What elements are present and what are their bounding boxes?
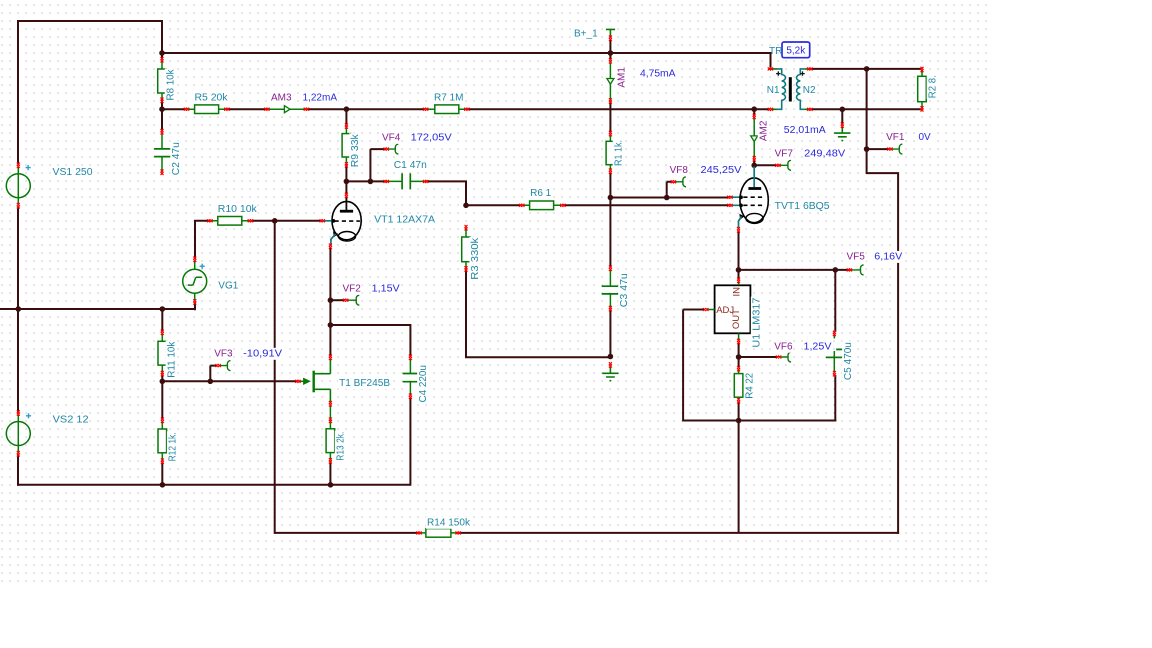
transformer primary winding N1 [772, 69, 786, 109]
wire R5 to AM3 [227, 108, 266, 110]
wire R10 right to VT1 grid [251, 220, 322, 222]
transformer secondary winding N2 [797, 69, 811, 109]
wire R5 left lead-in [162, 108, 186, 110]
B+_1 tie symbol [606, 29, 615, 37]
wire R8 bottom to C2 top through node [161, 101, 163, 132]
wire B+ junction to AM1 [609, 53, 611, 60]
node junction dot AM2 branch [751, 106, 757, 112]
resistor R1 [606, 135, 615, 172]
svg-text:U1 LM317: U1 LM317 [752, 297, 763, 347]
label N2 [802, 84, 817, 96]
probe VF7 [780, 160, 792, 170]
value 1,22mA [302, 92, 339, 104]
wire top-left horizontal [17, 20, 163, 22]
resistor R4 [734, 370, 743, 401]
label VT1 12AX7A [373, 214, 436, 226]
label R10 10k [217, 203, 258, 215]
svg-text:R8 10k: R8 10k [166, 69, 177, 101]
node junction dot VF3 tap [208, 379, 214, 385]
svg-text:VF2: VF2 [343, 284, 362, 295]
node junction dot VF7/TVT1 plate [751, 163, 757, 169]
wire R10 left corner to VG1 [194, 220, 210, 259]
wire AM2 lead-in from plate rail [753, 109, 755, 116]
value 1,15V [371, 283, 401, 295]
probe VF3 [220, 361, 231, 371]
wire cathode rail to VF5 [739, 269, 849, 271]
svg-text:R11 10k: R11 10k [166, 341, 177, 378]
value 249,48V [803, 148, 846, 160]
label VF4 [381, 132, 401, 144]
label R5 20k [194, 92, 229, 104]
label R4 22 [744, 372, 756, 400]
node A junction dot [15, 306, 21, 312]
svg-text:245,25V: 245,25V [701, 165, 742, 176]
svg-text:R1 1k.: R1 1k. [614, 140, 625, 166]
wire VF8 riser [667, 182, 673, 198]
wire C5 lead-in [834, 270, 836, 332]
wire LM317 OUT to VF6 node [738, 343, 740, 358]
node junction dot R4 bottom rail [736, 418, 742, 424]
wire R9 top lead-in [345, 109, 347, 125]
svg-text:AM3: AM3 [271, 92, 292, 103]
wire C5 bottom to loop rail [834, 375, 836, 422]
svg-text:1,15V: 1,15V [372, 284, 400, 295]
wire regulator branch down to bottom rail [738, 421, 740, 533]
wire R11 bottom to gate node [161, 374, 163, 383]
label VF3 [213, 348, 233, 360]
probe VF8 [675, 177, 686, 187]
wire R11 lead-in [161, 309, 163, 332]
svg-text:IN: IN [731, 287, 742, 297]
wire VS1 to node A junction [17, 207, 19, 310]
node junction dot C5 branch [833, 267, 839, 273]
svg-text:VG1: VG1 [218, 280, 238, 291]
svg-text:VF3: VF3 [214, 349, 233, 360]
label C5 470u [842, 341, 854, 381]
node junction dot R8/R5 [159, 106, 165, 112]
node junction dot VG1 return [160, 306, 166, 312]
label AM3 [270, 92, 293, 104]
value 4,75mA [639, 68, 677, 80]
probe VF6 [780, 352, 791, 362]
wire long bias vertical x=275 [274, 221, 276, 534]
value 1,25V [803, 341, 833, 353]
node junction dot VF1 [864, 146, 870, 152]
wire C1 node horizontal [346, 180, 385, 182]
label R12 1k [167, 431, 179, 462]
label VF6 [773, 341, 793, 353]
wire VF1 tap [867, 148, 889, 150]
wire top rail y=53 [162, 52, 771, 54]
label R3 330k [469, 237, 481, 281]
label R7 1M [433, 92, 464, 104]
wire C4 riser from bottom rail [409, 397, 411, 486]
svg-text:R14 150k: R14 150k [427, 518, 471, 529]
svg-text:5,2k: 5,2k [786, 45, 806, 56]
node junction dot grid bias rail top [272, 218, 278, 224]
node junction dot secondary ground tap [840, 107, 846, 113]
wire left stub and horizontal to VG1 return [0, 308, 162, 310]
wire R12 lead-in [161, 381, 163, 419]
resistor R12 [158, 421, 167, 461]
node junction dot VF4 tap [368, 179, 374, 185]
svg-text:VF5: VF5 [847, 252, 866, 263]
label C4 220u [417, 364, 429, 404]
svg-text:C1 47n: C1 47n [394, 160, 427, 171]
svg-text:249,48V: 249,48V [804, 149, 845, 160]
wire grid1 rail to TVT1 [610, 197, 729, 199]
label R8 10k [165, 69, 177, 102]
svg-text:VS1 250: VS1 250 [53, 167, 93, 178]
wire secondary top to R2 [812, 68, 921, 70]
capacitor C2 [154, 133, 170, 172]
probe VF5 [851, 265, 864, 275]
label U1 LM317 [751, 297, 763, 349]
label TVT1 6BQ5 [774, 200, 831, 212]
wire R3 bottom elbow to ground node [465, 270, 610, 358]
resistor R2 [918, 70, 927, 108]
svg-text:VF8: VF8 [670, 165, 689, 176]
label TR [769, 46, 782, 57]
svg-text:C4 220u: C4 220u [418, 365, 429, 403]
wire TVT1 cathode to VF5 rail [738, 231, 740, 271]
value 0V [918, 131, 932, 143]
label AM1 [616, 66, 628, 89]
wire C1 right to R6 elbow [426, 180, 467, 205]
node junction dot OUT/VF6/R4 [736, 354, 742, 360]
svg-text:C5 470u: C5 470u [843, 342, 854, 380]
svg-text:TR: TR [769, 46, 782, 57]
svg-text:R6 1: R6 1 [530, 188, 552, 199]
wire node to C4 elbow [330, 324, 410, 357]
wire AM1 to R1 crossing plate rail [609, 101, 611, 133]
ammeter AM1 [607, 62, 614, 100]
svg-text:VF1: VF1 [886, 132, 905, 143]
pin ADJ [716, 305, 734, 316]
pin IN [731, 287, 742, 297]
svg-text:VF6: VF6 [774, 342, 793, 353]
label VF7 [774, 148, 794, 160]
svg-text:N1: N1 [767, 85, 780, 96]
wire VF2 tap [330, 299, 344, 301]
svg-text:TVT1 6BQ5: TVT1 6BQ5 [775, 201, 830, 212]
wire R6 to TVT1 grid2 [563, 204, 729, 206]
svg-text:C2 47u: C2 47u [171, 142, 182, 175]
resistor R5 [187, 105, 228, 114]
svg-text:R4 22: R4 22 [745, 372, 756, 398]
wire transformer primary top drop [770, 52, 772, 68]
label VF8 [669, 164, 689, 176]
svg-text:T1 BF245B: T1 BF245B [339, 378, 390, 389]
node junction dot secondary top [864, 66, 870, 72]
wire ground 1 stem [841, 109, 843, 124]
resistor R11 [158, 333, 167, 373]
capacitor C5 [826, 335, 844, 372]
transformer value box 5,2k [782, 42, 810, 58]
svg-text:VF4: VF4 [382, 133, 401, 144]
label VS1 250 [52, 166, 94, 178]
wire LM317 IN lead-in [738, 270, 740, 280]
regulator U1 LM317 box [707, 281, 750, 341]
svg-text:AM2: AM2 [759, 120, 770, 141]
label R1 1k [613, 139, 625, 167]
resistor R8 [158, 60, 167, 101]
node junction dot top rail left [159, 50, 165, 56]
node junction dot R1/C3/grid wire [608, 195, 614, 201]
wire elbow to R6 [466, 204, 521, 206]
label N1 [766, 84, 781, 96]
wire R4 bottom to loop rail [738, 401, 740, 421]
wire VF6 tap [739, 356, 777, 358]
wire VF4 riser [370, 149, 385, 181]
wire C3 bottom to ground node [609, 309, 611, 357]
svg-text:B+_1: B+_1 [574, 28, 598, 39]
node junction dot R9/VT1 plate [344, 179, 350, 185]
ground G1 [834, 127, 850, 141]
wire T1 drain lead-in [329, 325, 331, 357]
label R9 33k [349, 133, 361, 168]
resistor R10 [210, 217, 250, 226]
resistor R6 [522, 201, 563, 210]
wire R7 to transformer primary bottom [467, 108, 770, 110]
node junction dot C3/ground/R3 [608, 354, 614, 360]
wire R4 lead-in [738, 357, 740, 368]
wire left vertical to VS1 [17, 20, 19, 164]
wire AM3 to R7 [307, 108, 425, 110]
wire B+_1 stem dark part [609, 39, 611, 54]
value -10,91V [242, 348, 283, 360]
value 172,05V [410, 132, 453, 144]
pentode TVT1 6BQ5 [731, 167, 769, 230]
svg-text:R5 20k: R5 20k [195, 92, 229, 103]
label VS2 12 [52, 414, 90, 426]
label VF2 [342, 283, 362, 295]
svg-text:R9 33k: R9 33k [350, 133, 361, 167]
jfet T1 BF245B [299, 358, 331, 403]
terminal marks [17, 36, 924, 535]
svg-text:172,05V: 172,05V [411, 133, 452, 144]
resistor R14 [419, 529, 458, 538]
value 52,01mA [783, 124, 827, 136]
value 6,16V [873, 251, 903, 263]
transformer TR core [789, 77, 792, 101]
svg-text:R3 330k: R3 330k [470, 237, 481, 280]
svg-text:C3 47u: C3 47u [619, 273, 630, 307]
svg-text:N2: N2 [803, 85, 816, 96]
label B+_1 [573, 28, 599, 40]
wire R12 bottom to rail [161, 462, 163, 486]
svg-text:R13 2k.: R13 2k. [336, 432, 347, 461]
node junction dot cathode/C4/T1 drain [328, 322, 334, 328]
probe VF4 [388, 144, 399, 154]
label R13 2k [335, 431, 347, 462]
ammeter AM2 [751, 118, 758, 159]
wire LM317 adj loop [682, 310, 836, 422]
resistor R9 [342, 126, 351, 165]
svg-text:-10,91V: -10,91V [243, 349, 282, 360]
triode VT1 12AX7A [323, 197, 361, 246]
node junction dot TVT1 cathode / LM317 in [736, 267, 742, 273]
label VG1 [217, 280, 239, 292]
pin OUT [731, 309, 742, 329]
svg-text:VS2 12: VS2 12 [53, 414, 89, 425]
voltage source VS2 [6, 413, 31, 452]
value 245,25V [700, 164, 743, 176]
probe VF1 [892, 144, 903, 154]
wire VF7 tap [754, 164, 776, 166]
node junction dot R13 on rail [328, 482, 334, 488]
capacitor C1 [388, 173, 424, 189]
signal generator VG1 [183, 261, 207, 302]
node junction dot R12 on rail [160, 482, 166, 488]
wire secondary bottom to R2 bottom [812, 108, 921, 110]
wire AM2 to VF7 node [753, 159, 755, 166]
svg-text:R7 1M: R7 1M [434, 92, 463, 103]
svg-text:R10 10k: R10 10k [218, 204, 258, 215]
label R2 8 [927, 74, 939, 99]
grid dots background [0, 0, 989, 583]
svg-text:4,75mA: 4,75mA [640, 68, 676, 79]
wire R13 bottom to rail [329, 462, 331, 486]
label R14 150k [426, 517, 471, 529]
label C3 47u [618, 272, 630, 308]
svg-text:R12 1k.: R12 1k. [168, 432, 179, 461]
label AM2 [758, 119, 770, 142]
resistor R7 [426, 105, 467, 114]
wire secondary vertical to VF1 node [866, 69, 868, 150]
svg-text:0V: 0V [919, 132, 932, 143]
label R11 10k [166, 341, 178, 379]
wire right riser and VF1 branch [867, 148, 899, 534]
wire VT1 plate lead-in [345, 181, 347, 195]
svg-text:1,25V: 1,25V [804, 342, 832, 353]
node junction dot VF8 tap [664, 195, 670, 201]
wire VS2 to bottom-left corner [17, 454, 19, 486]
probe VF2 [348, 295, 360, 305]
wire R14 to right riser [459, 532, 899, 534]
resistor R3 [462, 228, 471, 269]
label VF1 [885, 131, 905, 143]
svg-text:OUT: OUT [731, 309, 742, 329]
wire VF3 riser [210, 366, 217, 382]
voltage source VS1 [6, 165, 30, 204]
label R6 1 [529, 187, 552, 199]
wire bottom rail to R14 [275, 532, 419, 534]
node junction dot B+ rail [608, 50, 614, 56]
wire node A down to VS2 [17, 309, 19, 412]
wire R1 bottom to C3 top through grid node [609, 172, 611, 268]
label T1 BF245B [338, 377, 391, 389]
svg-text:52,01mA: 52,01mA [784, 125, 826, 136]
resistor R13 [326, 405, 335, 460]
svg-text:VT1 12AX7A: VT1 12AX7A [374, 214, 435, 225]
capacitor C4 [403, 359, 418, 396]
capacitor C3 [602, 269, 619, 308]
ground G2 [602, 367, 618, 381]
wire R9 bottom to C1 node [345, 166, 347, 183]
svg-text:R2 8.: R2 8. [928, 75, 939, 98]
wire corner down to B+ rail start [161, 20, 163, 60]
wire bottom rail y=485 [17, 484, 410, 486]
wire gate rail to T1 [162, 380, 297, 382]
node junction dot R11/R12/gate rail [160, 379, 166, 385]
node junction dot R9 top [344, 106, 350, 112]
wire VG1 bottom return elbow [162, 302, 196, 310]
label C2 47u [170, 141, 182, 176]
svg-text:6,16V: 6,16V [874, 252, 902, 263]
node junction dot R6/R3 elbow [463, 203, 469, 209]
node junction dot VF2 [328, 297, 334, 303]
wire VT1 cathode down through VF2 node [329, 247, 331, 326]
svg-text:VF7: VF7 [775, 149, 794, 160]
label C1 47n [393, 159, 428, 171]
label VF5 [846, 251, 866, 263]
ammeter AM3 [267, 106, 307, 113]
svg-text:1,22mA: 1,22mA [303, 92, 338, 103]
svg-text:AM1: AM1 [616, 67, 627, 88]
